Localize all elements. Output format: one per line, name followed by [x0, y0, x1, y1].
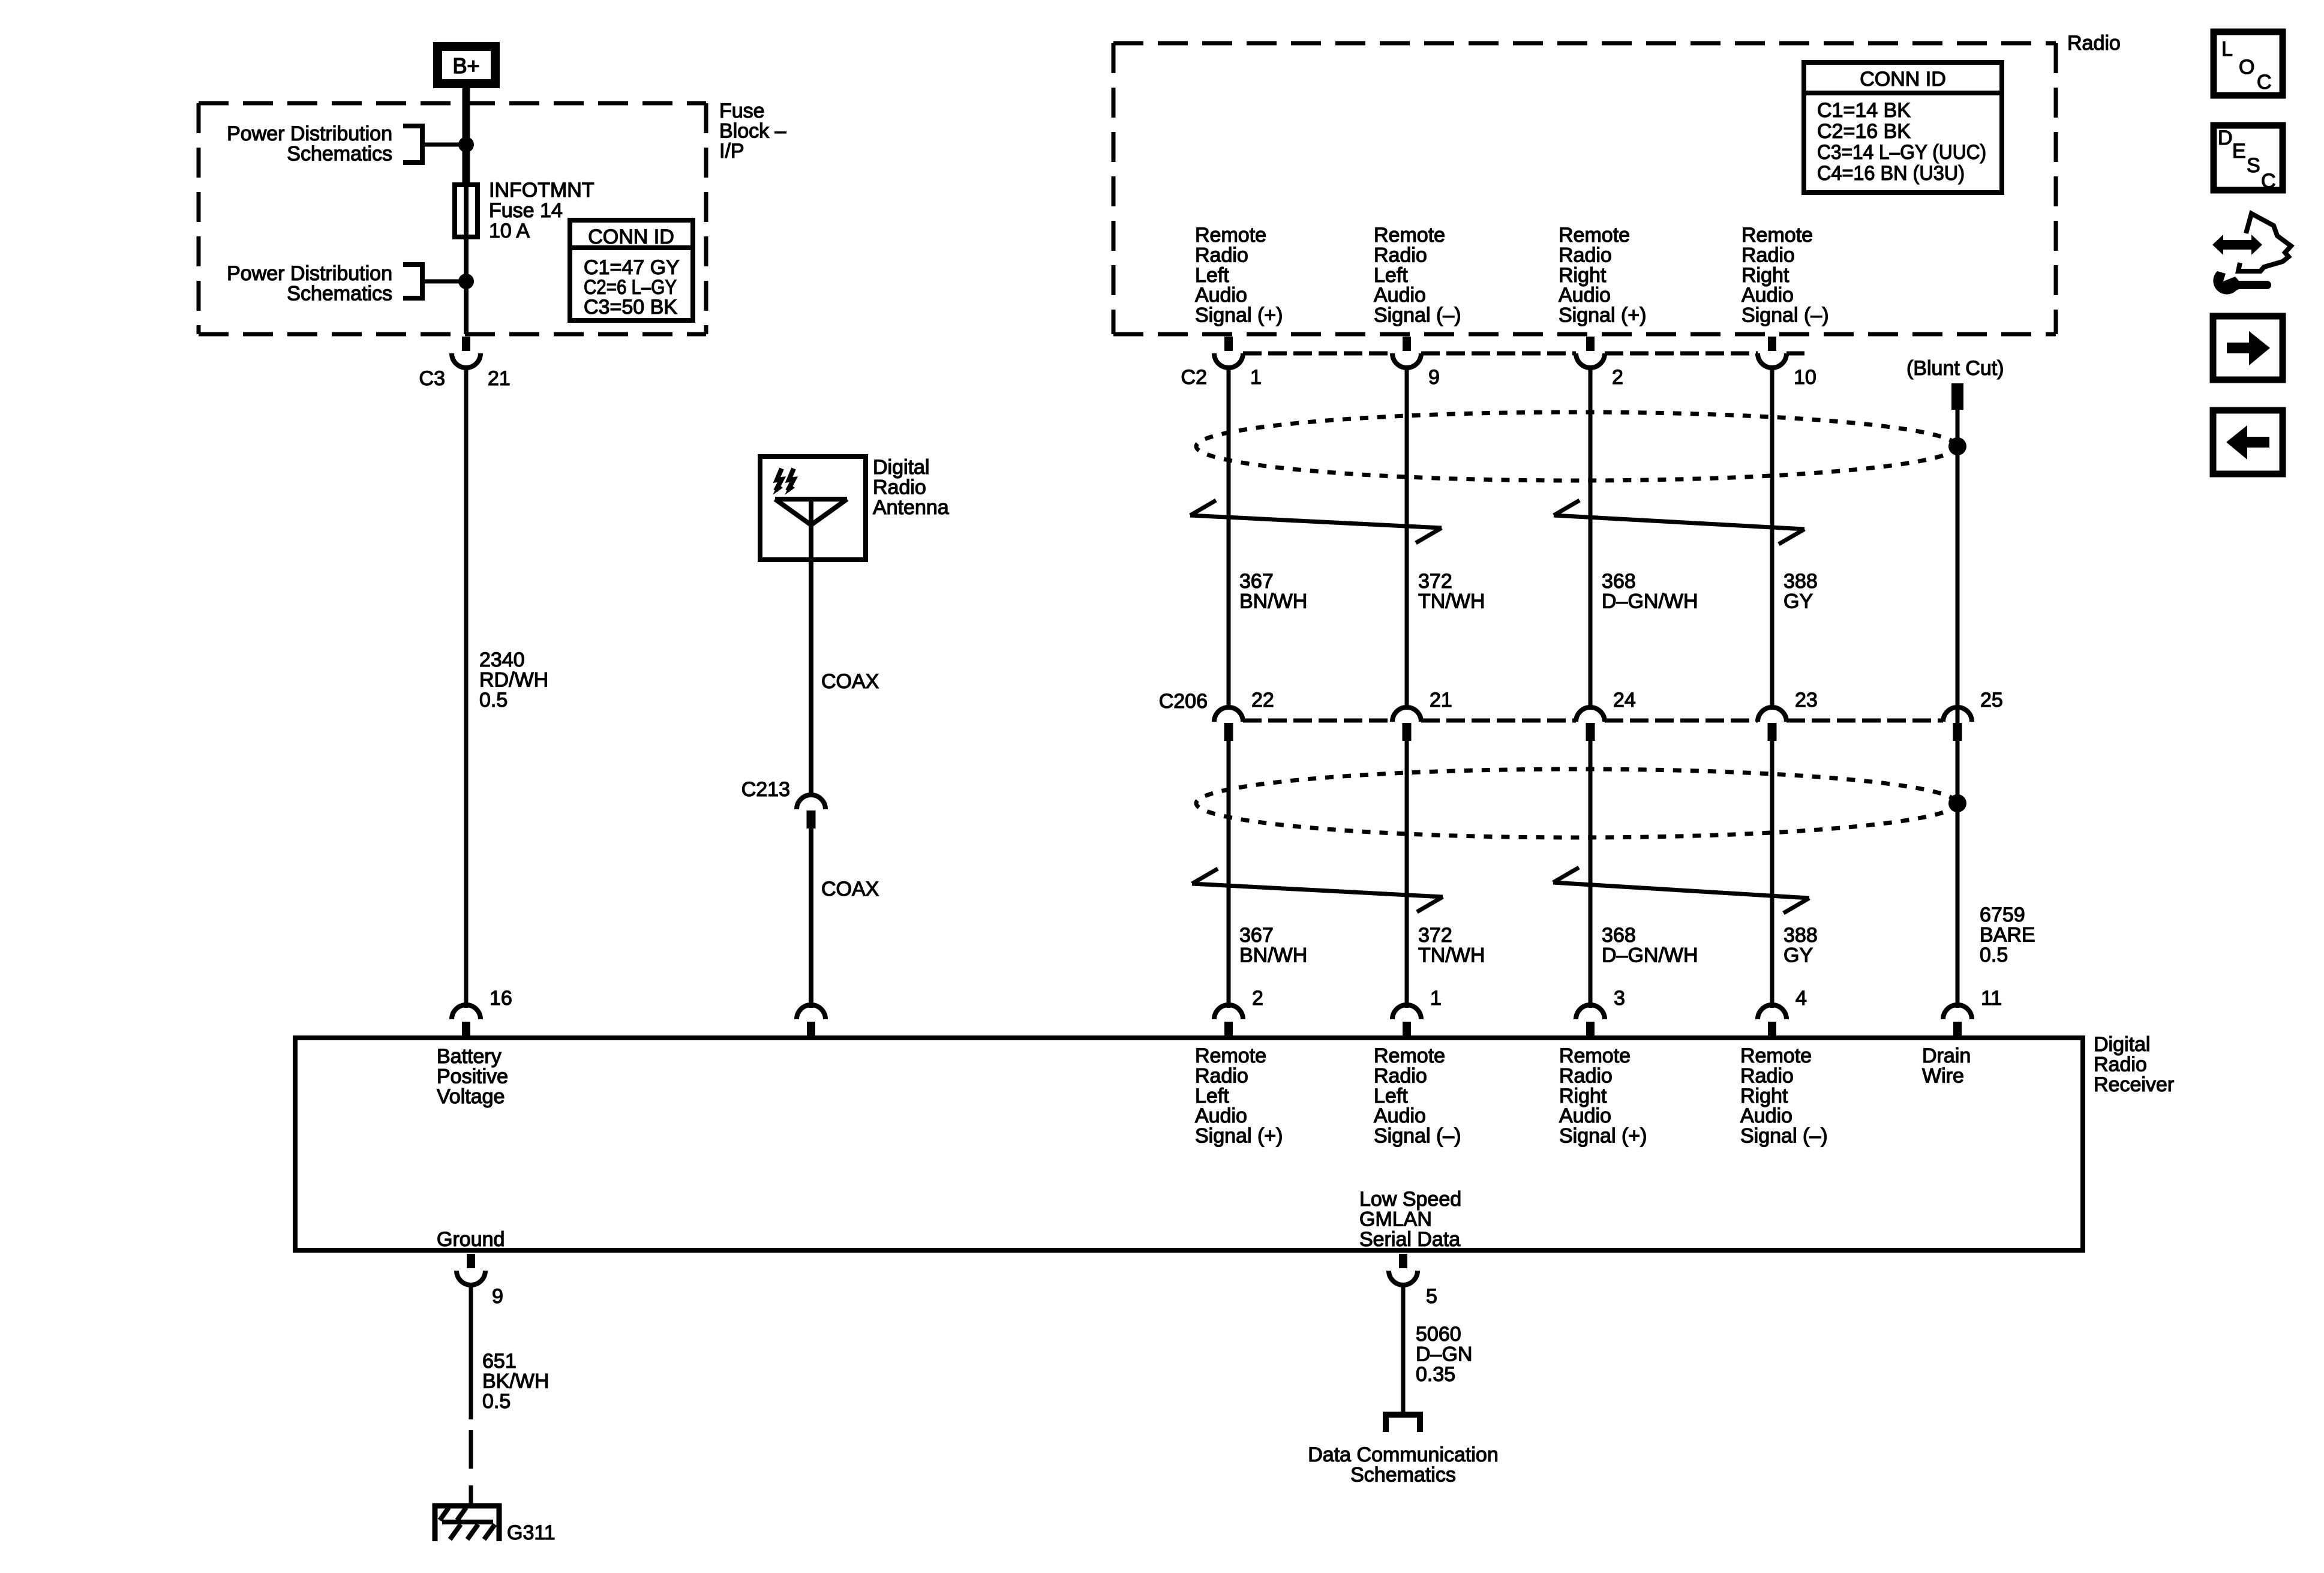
- svg-text:21: 21: [1430, 689, 1452, 712]
- connector C2 pin 10: [1758, 337, 1786, 368]
- svg-text:9: 9: [1428, 366, 1440, 389]
- svg-text:Signal (+): Signal (+): [1195, 304, 1283, 327]
- svg-text:Radio: Radio: [1740, 1064, 1794, 1087]
- svg-text:C2: C2: [1181, 366, 1207, 389]
- wire audio (lower): [1227, 740, 1231, 1008]
- label circuit 372 TN/WH (upper): [1418, 570, 1485, 613]
- connector C213: [797, 795, 825, 828]
- svg-text:0.5: 0.5: [482, 1390, 511, 1413]
- svg-text:Power Distribution: Power Distribution: [227, 122, 392, 145]
- svg-text:INFOTMNT: INFOTMNT: [489, 179, 594, 202]
- svg-text:Fuse 14: Fuse 14: [489, 199, 563, 222]
- blunt cut wire end: [1951, 383, 1963, 410]
- svg-text:9: 9: [492, 1285, 503, 1308]
- off-page tap Power Distribution Schematics (upper): [403, 124, 466, 165]
- svg-text:Remote: Remote: [1559, 1044, 1631, 1067]
- svg-text:372: 372: [1418, 924, 1452, 947]
- svg-text:D: D: [2218, 127, 2233, 149]
- svg-text:Low Speed: Low Speed: [1359, 1188, 1461, 1211]
- label Remote Radio Left Audio Signal (+) [receiver]: [1195, 1044, 1283, 1148]
- wire COAX (upper): [809, 560, 813, 795]
- junction (upper tap): [458, 137, 474, 152]
- svg-text:Remote: Remote: [1195, 1044, 1266, 1067]
- svg-text:16: 16: [490, 987, 512, 1010]
- svg-text:C: C: [2257, 71, 2272, 94]
- svg-text:BN/WH: BN/WH: [1239, 944, 1307, 966]
- connector row C2 dashed line: [1243, 352, 1804, 356]
- connector receiver pin 1: [1392, 1005, 1421, 1036]
- connector C206 cavity 22: [1214, 707, 1243, 741]
- icon DESC: [2214, 125, 2283, 193]
- svg-text:Right: Right: [1559, 1085, 1607, 1107]
- svg-text:4: 4: [1795, 987, 1807, 1010]
- label Digital Radio Receiver: [2094, 1033, 2174, 1096]
- svg-text:388: 388: [1783, 570, 1818, 593]
- svg-text:Left: Left: [1374, 264, 1408, 287]
- wire audio: [1589, 368, 1593, 706]
- connector receiver pin 4: [1758, 1005, 1786, 1036]
- wire fuse to connector C3: [464, 237, 469, 334]
- twisted pair symbol (left pair, lower): [1192, 869, 1443, 912]
- label Drain Wire: [1922, 1044, 1971, 1087]
- label Remote Radio Right Audio Signal (+) [radio]: [1559, 224, 1646, 327]
- wire COAX (lower): [809, 828, 813, 1008]
- svg-text:24: 24: [1613, 689, 1636, 712]
- svg-text:Digital: Digital: [2094, 1033, 2150, 1056]
- svg-text:367: 367: [1239, 570, 1274, 593]
- svg-text:C3=50 BK: C3=50 BK: [584, 296, 677, 319]
- svg-text:368: 368: [1602, 924, 1636, 947]
- svg-text:Radio: Radio: [2067, 32, 2121, 55]
- connector receiver pin 11: [1943, 1005, 1972, 1036]
- svg-text:1: 1: [1430, 987, 1442, 1010]
- Radio (dashed box): [1113, 43, 2056, 334]
- wire drain (bare): [1956, 410, 1960, 1008]
- svg-text:C2=16 BK: C2=16 BK: [1817, 120, 1911, 143]
- svg-text:Signal (–): Signal (–): [1740, 1125, 1828, 1148]
- junction drain to shield (upper): [1948, 437, 1966, 455]
- svg-text:Block –: Block –: [719, 119, 786, 142]
- svg-text:BK/WH: BK/WH: [482, 1370, 549, 1392]
- svg-text:Radio: Radio: [1559, 1064, 1613, 1087]
- svg-text:C3=14 L–GY (UUC): C3=14 L–GY (UUC): [1817, 141, 1986, 164]
- svg-text:1: 1: [1250, 366, 1262, 389]
- svg-text:Audio: Audio: [1559, 284, 1611, 307]
- label circuit 368 D-GN/WH (lower): [1602, 924, 1698, 966]
- off-page destination Data Communication Schematics: [1383, 1415, 1423, 1432]
- svg-text:D–GN/WH: D–GN/WH: [1602, 590, 1698, 613]
- svg-text:372: 372: [1418, 570, 1452, 593]
- connector receiver pin 2: [1214, 1005, 1243, 1036]
- label Remote Radio Left Audio Signal (+) [radio]: [1195, 224, 1283, 327]
- wire 5060 D-GN 0.35: [1401, 1285, 1406, 1412]
- connector C2 pin 2: [1576, 337, 1605, 368]
- label Remote Radio Right Audio Signal (-) [radio]: [1742, 224, 1829, 327]
- svg-text:Antenna: Antenna: [873, 496, 949, 519]
- svg-text:Radio: Radio: [1374, 244, 1427, 266]
- twisted pair symbol (right pair, lower): [1553, 867, 1809, 913]
- svg-text:Remote: Remote: [1374, 224, 1445, 247]
- svg-text:Radio: Radio: [2094, 1053, 2147, 1076]
- svg-text:Remote: Remote: [1740, 1044, 1812, 1067]
- svg-text:C4=16 BN (U3U): C4=16 BN (U3U): [1817, 162, 1965, 185]
- svg-text:Right: Right: [1740, 1085, 1788, 1107]
- fuse F14 INFOTMNT 10A: [455, 185, 478, 237]
- svg-text:3: 3: [1614, 987, 1625, 1010]
- label Power Distribution Schematics (upper): [227, 122, 392, 165]
- svg-text:368: 368: [1602, 570, 1636, 593]
- svg-text:Data Communication: Data Communication: [1308, 1443, 1498, 1466]
- svg-text:Signal (–): Signal (–): [1374, 304, 1461, 327]
- svg-text:Right: Right: [1559, 264, 1607, 287]
- svg-text:GY: GY: [1783, 590, 1813, 613]
- icon arrow right: [2213, 316, 2283, 380]
- svg-text:Left: Left: [1374, 1085, 1408, 1107]
- svg-text:367: 367: [1239, 924, 1274, 947]
- off-page tap Power Distribution Schematics (lower): [403, 262, 466, 301]
- svg-text:D–GN/WH: D–GN/WH: [1602, 944, 1698, 966]
- connector C2 pin 1: [1214, 337, 1243, 368]
- icon diagnostic (hand and wrench): [2212, 214, 2291, 295]
- svg-text:S: S: [2247, 154, 2260, 177]
- wire audio: [1227, 368, 1231, 706]
- label INFOTMNT Fuse 14 10 A: [489, 179, 594, 242]
- svg-text:Signal (+): Signal (+): [1559, 1125, 1647, 1148]
- svg-text:B+: B+: [452, 53, 479, 78]
- wire (dashed continuation to ground): [469, 1430, 473, 1469]
- svg-text:Left: Left: [1195, 264, 1229, 287]
- svg-text:Signal (–): Signal (–): [1742, 304, 1829, 327]
- svg-text:TN/WH: TN/WH: [1418, 944, 1485, 966]
- twisted pair symbol (right pair, upper): [1554, 500, 1804, 544]
- svg-text:CONN ID: CONN ID: [588, 226, 674, 248]
- svg-text:Left: Left: [1195, 1085, 1229, 1107]
- label circuit 367 BN/WH (upper): [1239, 570, 1307, 613]
- svg-text:D–GN: D–GN: [1416, 1343, 1472, 1365]
- svg-text:10: 10: [1794, 366, 1816, 389]
- svg-text:2: 2: [1252, 987, 1263, 1010]
- label circuit 651 BK/WH 0.5: [482, 1350, 549, 1413]
- svg-text:Serial Data: Serial Data: [1359, 1228, 1460, 1251]
- svg-text:Audio: Audio: [1374, 1104, 1426, 1127]
- fuse block I/P (dashed box): [199, 103, 706, 334]
- wire B+ feed (thick): [463, 88, 470, 185]
- svg-text:TN/WH: TN/WH: [1418, 590, 1485, 613]
- CONN ID table (radio): [1804, 62, 2002, 193]
- svg-text:COAX: COAX: [821, 878, 879, 900]
- twisted pair symbol (left pair, upper): [1190, 500, 1442, 543]
- label Remote Radio Left Audio Signal (-) [receiver]: [1374, 1044, 1461, 1148]
- label circuit 388 GY (lower): [1783, 924, 1818, 966]
- label Digital Radio Antenna: [873, 456, 949, 519]
- svg-text:C206: C206: [1159, 690, 1208, 713]
- connector row C206 dashed line: [1243, 719, 1943, 723]
- svg-text:O: O: [2239, 56, 2254, 79]
- label Low Speed GMLAN Serial Data: [1359, 1188, 1461, 1251]
- wire audio (lower): [1405, 740, 1409, 1008]
- junction (lower tap): [458, 274, 474, 289]
- svg-text:Audio: Audio: [1195, 284, 1247, 307]
- Digital Radio Receiver (box): [295, 1038, 2083, 1250]
- wire audio (lower): [1589, 740, 1593, 1008]
- connector receiver pin 16: [452, 1005, 481, 1036]
- svg-text:I/P: I/P: [719, 140, 744, 163]
- icon arrow left: [2213, 410, 2283, 474]
- label Remote Radio Right Audio Signal (-) [receiver]: [1740, 1044, 1828, 1148]
- wire audio (lower): [1770, 740, 1774, 1008]
- svg-text:C: C: [2261, 170, 2276, 193]
- wire audio: [1770, 368, 1774, 706]
- label circuit 368 D-GN/WH (upper): [1602, 570, 1698, 613]
- svg-text:COAX: COAX: [821, 670, 879, 693]
- svg-text:C3: C3: [419, 367, 445, 390]
- svg-text:11: 11: [1981, 987, 2002, 1010]
- svg-text:Audio: Audio: [1742, 284, 1794, 307]
- svg-text:CONN ID: CONN ID: [1860, 68, 1946, 91]
- connector receiver pin 9: [457, 1254, 485, 1285]
- svg-text:BARE: BARE: [1980, 923, 2035, 946]
- svg-text:6759: 6759: [1980, 903, 2025, 926]
- power symbol B+: [433, 42, 500, 88]
- svg-text:BN/WH: BN/WH: [1239, 590, 1307, 613]
- label Data Communication Schematics: [1308, 1443, 1498, 1486]
- label circuit 367 BN/WH (lower): [1239, 924, 1307, 966]
- svg-text:Radio: Radio: [1559, 244, 1612, 266]
- label Battery Positive Voltage: [437, 1045, 508, 1108]
- svg-text:Receiver: Receiver: [2094, 1073, 2174, 1096]
- svg-text:Battery: Battery: [437, 1045, 502, 1068]
- svg-text:5: 5: [1426, 1285, 1437, 1308]
- svg-text:388: 388: [1783, 924, 1818, 947]
- svg-text:Radio: Radio: [1195, 1064, 1248, 1087]
- wire through fuse: [464, 185, 469, 237]
- svg-text:C213: C213: [741, 778, 790, 801]
- connector receiver pin 5: [1389, 1254, 1418, 1285]
- svg-text:Schematics: Schematics: [287, 142, 392, 165]
- svg-text:0.5: 0.5: [1980, 944, 2008, 966]
- label circuit 2340 RD/WH 0.5: [479, 649, 548, 712]
- svg-text:25: 25: [1980, 689, 2003, 712]
- svg-text:RD/WH: RD/WH: [479, 668, 548, 691]
- svg-text:G311: G311: [507, 1521, 556, 1544]
- svg-text:Radio: Radio: [1374, 1064, 1427, 1087]
- shield ellipse (lower twisted/shielded bundle): [1196, 769, 1957, 837]
- svg-text:Audio: Audio: [1374, 284, 1426, 307]
- svg-text:2340: 2340: [479, 649, 525, 671]
- svg-text:5060: 5060: [1416, 1323, 1461, 1346]
- label Power Distribution Schematics (lower): [227, 262, 392, 305]
- wire 2340 RD/WH 0.5: [464, 368, 469, 1008]
- svg-text:C1=14 BK: C1=14 BK: [1817, 99, 1911, 122]
- svg-text:Audio: Audio: [1195, 1104, 1247, 1127]
- connector C206 cavity 21: [1392, 707, 1421, 741]
- ground G311: [433, 1503, 502, 1541]
- svg-text:E: E: [2232, 140, 2246, 163]
- connector C206 cavity 23: [1758, 707, 1786, 741]
- svg-text:Audio: Audio: [1740, 1104, 1792, 1127]
- label circuit 6759 BARE 0.5: [1980, 903, 2035, 966]
- svg-text:Signal (+): Signal (+): [1195, 1125, 1283, 1148]
- wire 651 BK/WH 0.5: [469, 1285, 473, 1419]
- svg-text:Ground: Ground: [437, 1228, 505, 1251]
- svg-text:Audio: Audio: [1559, 1104, 1611, 1127]
- svg-text:Remote: Remote: [1374, 1044, 1445, 1067]
- CONN ID table (fuse block): [570, 220, 693, 320]
- svg-text:Radio: Radio: [1742, 244, 1795, 266]
- svg-text:Voltage: Voltage: [437, 1085, 505, 1108]
- svg-text:21: 21: [488, 367, 511, 390]
- connector receiver pin (coax): [797, 1005, 825, 1036]
- svg-text:0.5: 0.5: [479, 689, 508, 712]
- svg-text:Power Distribution: Power Distribution: [227, 262, 392, 285]
- connector C2 pin 9: [1392, 337, 1421, 368]
- svg-text:Right: Right: [1742, 264, 1789, 287]
- shield ellipse (upper twisted/shielded bundle): [1196, 412, 1957, 481]
- connector C3 pin 21: [452, 337, 481, 368]
- label circuit 5060 D-GN 0.35: [1416, 1323, 1472, 1386]
- label Remote Radio Left Audio Signal (-) [radio]: [1374, 224, 1461, 327]
- svg-text:Drain: Drain: [1922, 1044, 1971, 1067]
- connector C206 cavity 25: [1943, 707, 1972, 741]
- svg-text:Schematics: Schematics: [1350, 1463, 1456, 1486]
- svg-text:Remote: Remote: [1195, 224, 1266, 247]
- svg-text:Schematics: Schematics: [287, 282, 392, 305]
- svg-text:Radio: Radio: [1195, 244, 1248, 266]
- svg-text:Positive: Positive: [437, 1065, 508, 1088]
- svg-text:651: 651: [482, 1350, 517, 1373]
- label Fuse Block - I/P: [719, 100, 786, 163]
- svg-text:GY: GY: [1783, 944, 1813, 966]
- svg-text:Radio: Radio: [873, 476, 926, 499]
- svg-text:Signal (–): Signal (–): [1374, 1125, 1461, 1148]
- label Remote Radio Right Audio Signal (+) [receiver]: [1559, 1044, 1647, 1148]
- svg-text:(Blunt Cut): (Blunt Cut): [1906, 357, 2004, 380]
- svg-text:2: 2: [1612, 366, 1623, 389]
- junction drain to shield (lower): [1948, 794, 1966, 812]
- svg-text:Remote: Remote: [1742, 224, 1813, 247]
- antenna: Digital Radio Antenna: [760, 457, 866, 560]
- svg-text:Signal (+): Signal (+): [1559, 304, 1646, 327]
- wire audio: [1405, 368, 1409, 706]
- svg-text:Wire: Wire: [1922, 1064, 1964, 1087]
- svg-text:Fuse: Fuse: [719, 100, 765, 122]
- svg-text:Remote: Remote: [1559, 224, 1630, 247]
- icon LOC: [2214, 32, 2283, 95]
- label circuit 388 GY (upper): [1783, 570, 1818, 613]
- svg-text:Digital: Digital: [873, 456, 929, 479]
- svg-text:22: 22: [1251, 689, 1274, 712]
- label circuit 372 TN/WH (lower): [1418, 924, 1485, 966]
- svg-text:23: 23: [1795, 689, 1818, 712]
- svg-text:L: L: [2221, 38, 2233, 61]
- connector C206 cavity 24: [1576, 707, 1605, 741]
- svg-text:10 A: 10 A: [489, 220, 530, 242]
- connector receiver pin 3: [1576, 1005, 1605, 1036]
- svg-text:0.35: 0.35: [1416, 1363, 1455, 1386]
- svg-text:GMLAN: GMLAN: [1359, 1208, 1432, 1230]
